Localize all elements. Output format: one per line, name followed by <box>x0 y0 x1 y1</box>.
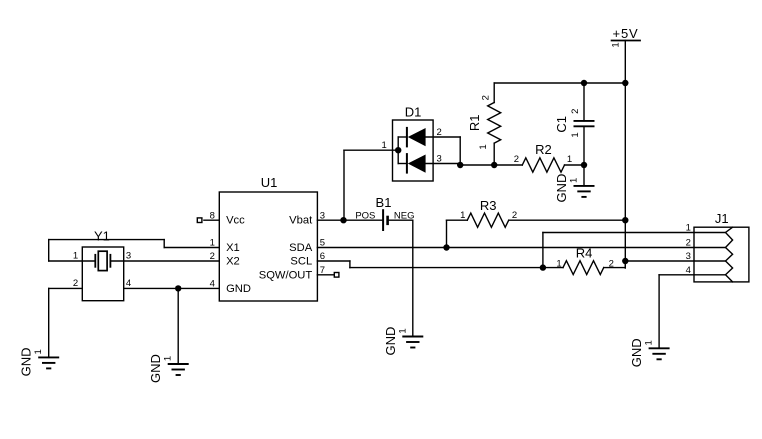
node SCL/J1 pin1/R4 <box>540 264 546 270</box>
resistor R2 <box>460 158 584 172</box>
svg-text:D1: D1 <box>405 105 422 120</box>
J1 contact zigzag <box>726 227 733 282</box>
svg-text:GND: GND <box>19 347 34 376</box>
svg-text:1: 1 <box>478 144 489 149</box>
svg-text:8: 8 <box>210 211 215 222</box>
diode D1a (top) <box>407 127 460 147</box>
wire J1 pin4 <box>659 274 694 276</box>
ground under B1 <box>402 337 423 348</box>
svg-text:4: 4 <box>126 278 131 289</box>
svg-text:1: 1 <box>556 258 561 269</box>
node SDA/R3 <box>443 244 449 250</box>
wire Vbat to battery node <box>317 219 383 221</box>
wire Y1 pin2 <box>49 287 83 289</box>
wire Y1 pin2 down to ground <box>48 288 50 357</box>
svg-text:1: 1 <box>460 210 465 221</box>
node C1 top <box>581 80 587 86</box>
wire J1 pin3 from +5V <box>625 260 694 262</box>
svg-text:POS: POS <box>355 211 375 222</box>
node U1 GND/mid ground <box>175 285 181 291</box>
svg-text:R3: R3 <box>480 198 497 213</box>
svg-text:R2: R2 <box>535 142 552 157</box>
wire Y1 pin3 to U1 X2 <box>110 260 219 262</box>
resistor R4 <box>563 261 625 275</box>
svg-text:1: 1 <box>611 42 622 47</box>
svg-text:1: 1 <box>163 356 174 361</box>
svg-text:1: 1 <box>569 178 580 183</box>
wire X1 step up <box>163 240 165 248</box>
svg-text:GND: GND <box>629 338 644 367</box>
wire Y1 pin1 <box>49 260 96 262</box>
diode pack D1 box <box>393 120 434 181</box>
connector J1 box <box>694 227 749 282</box>
svg-text:GND: GND <box>554 174 569 203</box>
wire Vbat node up to D1 pin 1 <box>343 150 345 220</box>
wire Y1 pin4 to U1 GND <box>124 287 220 289</box>
node R1 bottom <box>491 162 497 168</box>
svg-text:GND: GND <box>226 283 251 295</box>
svg-text:NEG: NEG <box>394 211 415 222</box>
svg-text:X1: X1 <box>226 242 240 254</box>
svg-text:Vbat: Vbat <box>289 215 313 227</box>
svg-text:SDA: SDA <box>289 242 313 254</box>
wire X1 top run <box>49 239 165 241</box>
resistor R3 <box>447 213 626 247</box>
wire SDA row <box>317 247 694 249</box>
U1 pin 7 SQW/OUT stub <box>317 274 336 276</box>
U1 pin 8 Vcc stub <box>204 219 219 221</box>
svg-text:2: 2 <box>512 210 517 221</box>
svg-text:1: 1 <box>644 340 655 345</box>
svg-text:1: 1 <box>570 132 581 137</box>
svg-text:X2: X2 <box>226 256 240 268</box>
svg-text:R1: R1 <box>467 114 482 131</box>
ground right (J1) <box>649 348 670 359</box>
node D1 pins 2/3 <box>457 162 463 168</box>
svg-text:SCL: SCL <box>290 256 312 268</box>
svg-text:U1: U1 <box>261 175 278 190</box>
svg-text:1: 1 <box>33 349 44 354</box>
wire SCL step <box>349 261 351 268</box>
battery B1 <box>383 209 413 231</box>
svg-text:1: 1 <box>567 154 572 165</box>
wire B1 NEG down to ground <box>412 220 414 336</box>
ground left (crystal) <box>38 357 59 368</box>
svg-text:J1: J1 <box>715 211 729 226</box>
node D1 pin1 <box>395 147 401 153</box>
capacitor C1 <box>574 83 595 165</box>
unconnected terminal square (SQW/OUT) <box>334 273 339 278</box>
svg-text:3: 3 <box>437 153 442 164</box>
wire SCL lower run <box>350 267 563 269</box>
wire J1 pin1 run <box>543 232 694 234</box>
crystal Y1 box <box>82 247 123 301</box>
wire top rail <box>494 82 625 84</box>
ground under C1 <box>574 165 595 197</box>
svg-text:2: 2 <box>73 278 78 289</box>
svg-text:2: 2 <box>570 109 581 114</box>
svg-text:1: 1 <box>73 251 78 262</box>
svg-text:2: 2 <box>437 127 442 138</box>
+5V power symbol <box>611 40 641 42</box>
svg-text:2: 2 <box>480 95 491 100</box>
wire J1 pin4 drop to ground <box>658 275 660 349</box>
svg-text:C1: C1 <box>554 116 569 133</box>
resistor R1 <box>488 83 501 165</box>
node R3/+5V <box>622 217 628 223</box>
crystal symbol <box>95 251 110 270</box>
wire SCL start <box>317 260 350 262</box>
node C1 bottom <box>581 162 587 168</box>
svg-text:1: 1 <box>382 140 387 151</box>
D1 anode bracket <box>398 137 407 164</box>
svg-text:GND: GND <box>148 354 163 383</box>
node rail/+5V <box>622 80 628 86</box>
svg-text:GND: GND <box>383 327 398 356</box>
svg-text:+5V: +5V <box>613 26 639 41</box>
svg-text:SQW/OUT: SQW/OUT <box>259 269 313 281</box>
ground middle (U1 GND) <box>168 364 189 375</box>
unconnected terminal square (Vcc) <box>197 218 202 223</box>
svg-text:3: 3 <box>126 251 131 262</box>
wire mid ground drop <box>177 288 179 364</box>
D1 pin 2 drop wire <box>459 137 461 165</box>
D1 pin 1 wire <box>344 149 398 151</box>
wire J1 pin1 drop to SCL <box>542 233 544 268</box>
svg-text:2: 2 <box>686 238 691 249</box>
svg-text:1: 1 <box>397 328 408 333</box>
node Vbat/B1/D1 <box>340 217 346 223</box>
svg-text:R4: R4 <box>576 245 593 260</box>
wire +5V vertical rail <box>624 41 626 269</box>
IC U1 box <box>219 192 317 301</box>
svg-text:B1: B1 <box>376 195 392 210</box>
wire X1 left drop <box>48 240 50 261</box>
node J1 pin3/+5V <box>622 258 628 264</box>
svg-text:2: 2 <box>514 154 519 165</box>
J1 pin stubs inside box <box>694 233 726 275</box>
svg-text:Vcc: Vcc <box>226 215 245 227</box>
wire X1 net: U1 pin1 to step <box>164 247 219 249</box>
diode D1b (bottom) <box>407 153 460 174</box>
svg-text:2: 2 <box>609 258 614 269</box>
svg-text:Y1: Y1 <box>94 229 110 244</box>
